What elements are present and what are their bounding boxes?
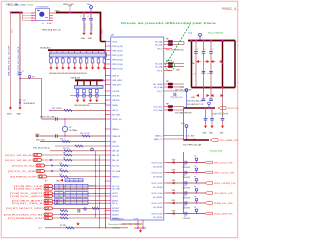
svg-text:PGOOD: PGOOD [112,146,120,148]
svg-text:[5V] INT_CHG_B: [5V] INT_CHG_B [12,203,44,205]
svg-text:I2C_SDA: I2C_SDA [112,170,120,173]
svg-text:USB_ID: USB_ID [112,75,119,77]
svg-text:!Imax=7500mA: !Imax=7500mA [208,31,223,34]
svg-text:U? BQ24392: U? BQ24392 [36,6,49,8]
svg-text:C?: C? [207,74,209,76]
svg-text:VDDIO_SD_CAP: VDDIO_SD_CAP [40,116,55,119]
svg-text:[3V] SOC_VHP_SEL_B1: [3V] SOC_VHP_SEL_B1 [5,160,32,162]
svg-text:GND: GND [203,133,208,135]
svg-text:SD_D3A: SD_D3A [155,65,163,68]
svg-text:GNDGNDGNDGNDGNDGNDGNDGNDGNDGN: GNDGNDGNDGNDGNDGNDGNDGNDGNDGN [49,73,87,75]
svg-text:! Imax=0.3mA: ! Imax=0.3mA [209,149,222,152]
svg-text:GND: GND [88,38,93,40]
svg-text:ALERT: ALERT [112,199,119,202]
svg-text:LDO_MODE: LDO_MODE [153,187,163,189]
svg-text:GND: GND [172,211,177,213]
svg-text:VDD_PHER_1V8: VDD_PHER_1V8 [219,140,238,142]
svg-text:VDDIO_SD: VDDIO_SD [112,119,122,121]
svg-text:SD_D0A: SD_D0A [155,40,163,43]
svg-text:Vreg: Vreg [180,87,184,89]
svg-text:GND: GND [81,38,86,40]
svg-text:GND: GND [191,63,196,65]
svg-text:VDDA_B5: VDDA_B5 [71,77,81,80]
svg-text:I2C2_SDA: I2C2_SDA [154,109,163,112]
svg-text:SUPRESSOR: SUPRESSOR [24,103,36,105]
svg-text:SD_CLK: SD_CLK [112,186,120,188]
svg-text:[1V8] SOC_GPIO2: [1V8] SOC_GPIO2 [10,196,43,198]
svg-text:[5V] HOLDING_PG_B1: [5V] HOLDING_PG_B1 [4,214,43,216]
svg-text:C?: C? [194,74,196,76]
svg-text:[5V] SYS_I2C_SCL: [5V] SYS_I2C_SCL [12,165,36,167]
svg-text:C?: C? [87,16,89,18]
svg-text:USB_VBUS_5V0_AC_CHG_DET: USB_VBUS_5V0_AC_CHG_DET [7,45,10,76]
svg-text:SW_1.1V75: SW_1.1V75 [80,133,90,135]
svg-text:VDD_MCU_SYS_B: VDD_MCU_SYS_B [33,147,50,149]
svg-text:2.2uF/10V: 2.2uF/10V [183,177,191,179]
svg-text:Vreg: Vreg [181,123,185,125]
svg-text:Vbus: Vbus [87,4,92,6]
svg-text:VOUT_LDO5: VOUT_LDO5 [151,203,162,205]
svg-text:[5V] SYS_I2C_SDA: [5V] SYS_I2C_SDA [8,170,36,173]
svg-text:0.1uF/25V: 0.1uF/25V [92,22,94,31]
svg-text:2.2K: 2.2K [59,174,63,176]
svg-text:VDD_PHER_1V8_CAP: VDD_PHER_1V8_CAP [183,144,202,147]
svg-text:XTALIN: XTALIN [112,128,119,131]
svg-text:bq: bq [37,10,39,12]
svg-text:SEL_B0: SEL_B0 [112,151,119,153]
svg-text:[3V] SOC_VHP_SEL_B0: [3V] SOC_VHP_SEL_B0 [5,155,32,157]
svg-text:TP28_GND_B05: TP28_GND_B05 [170,97,183,99]
svg-text:U?: U? [69,127,71,129]
svg-text:GND: GND [7,114,12,116]
svg-text:PWR_IN_B5: PWR_IN_B5 [112,68,122,70]
svg-text:PWR_IN_B1: PWR_IN_B1 [112,50,122,52]
svg-text:PS_I0: PS_I0 [157,48,162,50]
svg-text:VRTC_LDO2_1V8: VRTC_LDO2_1V8 [214,172,235,174]
svg-text:GND: GND [209,133,214,135]
svg-text:Imax=1100mA: Imax=1100mA [212,112,228,115]
svg-text:C?: C? [184,195,186,197]
svg-text:LDO_MODE: LDO_MODE [153,176,163,178]
svg-text:2.2uF/10V: 2.2uF/10V [183,198,191,200]
svg-text:2.2K: 2.2K [59,168,63,170]
svg-text:2.2uF/10V: 2.2uF/10V [183,188,191,190]
svg-text:FB?: FB? [166,104,169,106]
svg-text:0R: 0R [63,157,66,159]
svg-text:B?: B? [45,181,47,183]
svg-text:CLK32K: CLK32K [112,91,120,93]
svg-text:nn: nn [42,23,44,25]
svg-text:INT_B: INT_B [112,203,118,205]
svg-text:2.2K: 2.2K [59,163,63,165]
svg-text:LDO_MODE: LDO_MODE [153,207,163,209]
svg-text:VDDA_B15: VDDA_B15 [40,46,51,49]
svg-text:[5V] VBUS_ALERT: [5V] VBUS_ALERT [12,199,44,202]
svg-text:GND: GND [172,200,177,202]
svg-text:C?: C? [184,175,186,177]
svg-text:26.75MHz: 26.75MHz [69,130,77,132]
svg-text:C?: C? [184,165,186,167]
svg-text:C?: C? [184,216,186,218]
svg-text:GND: GND [172,180,177,182]
svg-text:SW_VDDIO: SW_VDDIO [52,108,63,110]
svg-text:GND: GND [191,97,196,99]
svg-text:C?: C? [184,185,186,187]
svg-text:VDD_SOC_0V8: VDD_SOC_0V8 [227,108,238,110]
svg-text:C?: C? [204,49,206,51]
svg-text:GND: GND [172,160,177,162]
svg-text:LDO_MODE: LDO_MODE [153,166,163,168]
svg-text:Route as pseudo differential p: Route as pseudo differential pair trace [121,22,217,25]
svg-text:SD_CMDA: SD_CMDA [153,83,163,86]
svg-text:I2C2_SCL: I2C2_SCL [154,106,163,108]
svg-text:5V0: 5V0 [12,30,14,33]
svg-text:VOUT_LDO2: VOUT_LDO2 [151,172,162,174]
svg-text:VSYS: VSYS [112,41,118,43]
svg-text:PWR_IN_B4: PWR_IN_B4 [112,64,122,66]
svg-text:C?: C? [22,71,24,73]
svg-text:VDD_MSCL_1V8: VDD_MSCL_1V8 [214,193,233,195]
svg-text:PS_I1: PS_I1 [157,70,162,72]
svg-text:VOUT_LDO6: VOUT_LDO6 [151,213,162,215]
svg-text:[5V] PWRGRD_PG4: [5V] PWRGRD_PG4 [8,218,44,220]
svg-text:VSYS_SYS_4V2_CHG_OUT_B: VSYS_SYS_4V2_CHG_OUT_B [18,46,20,76]
svg-text:SD_VSEL: SD_VSEL [112,114,120,116]
svg-text:SYS_EN: SYS_EN [112,95,120,97]
svg-text:PS_I2: PS_I2 [157,91,162,93]
svg-text:[1V8] SD_CMD: [1V8] SD_CMD [14,189,44,191]
svg-text:2.2uF/10V: 2.2uF/10V [183,208,191,210]
svg-text:XTALOUT: XTALOUT [112,135,121,138]
svg-text:GND: GND [172,190,177,192]
svg-text:PWRON: PWRON [112,100,120,102]
svg-text:SD_CLKA: SD_CLKA [154,86,163,89]
svg-text:SD_D2A: SD_D2A [155,62,163,65]
svg-text:PWR_IN_B2: PWR_IN_B2 [112,55,122,57]
svg-text:GPIO2: GPIO2 [112,196,118,198]
svg-text:D?: D? [24,100,26,102]
svg-text:Thermal pad GND: Thermal pad GND [108,224,123,226]
svg-text:VDD1_LPDDR_1V8: VDD1_LPDDR_1V8 [214,183,237,185]
svg-text:VHT_LDO1_1V8: VHT_LDO1_1V8 [214,162,234,164]
svg-text:see note A: see note A [23,3,33,6]
svg-text:[5V] BT_DETECT_GPIO: [5V] BT_DETECT_GPIO [6,208,43,210]
svg-text:[1V8] SD_CLK: [1V8] SD_CLK [14,186,44,188]
svg-text:VDD_SD2: VDD_SD2 [36,139,45,141]
svg-text:2.2uF/10V: 2.2uF/10V [183,167,191,169]
svg-text:SW_1%: SW_1% [63,148,70,150]
svg-text:0R: 0R [63,152,66,154]
svg-text:GND: GND [16,114,21,116]
svg-text:0.1uF: 0.1uF [47,23,52,25]
svg-text:VOUT_LDO3: VOUT_LDO3 [151,183,162,185]
svg-text:SW2: SW2 [112,141,116,143]
svg-text:PWR_IN_B0: PWR_IN_B0 [112,46,122,48]
svg-text:FB?: FB? [166,39,169,41]
svg-text:VSYS: VSYS [102,28,104,34]
svg-text:0.1uF/25V: 0.1uF/25V [85,22,87,31]
svg-text:Vreg: Vreg [188,32,192,35]
svg-text:SEL_B2: SEL_B2 [112,160,119,162]
svg-text:VBUS_ACA_DET_LN: VBUS_ACA_DET_LN [42,29,61,32]
svg-text:USB_VBUS: USB_VBUS [112,80,123,82]
svg-text:TP6: TP6 [32,77,35,79]
svg-text:C?: C? [212,49,214,51]
svg-text:2.2uF/10V: 2.2uF/10V [183,218,191,220]
svg-text:C?: C? [184,205,186,207]
svg-text:SD_PU: SD_PU [89,185,95,187]
svg-text:GNDA: GNDA [112,104,118,107]
svg-text:GND: GND [220,133,225,135]
svg-text:PROC_A: PROC_A [222,7,237,11]
svg-text:R? 33R: R? 33R [60,225,67,227]
svg-text:SD_CMD: SD_CMD [112,189,120,191]
svg-text:C?: C? [197,49,199,51]
svg-text:SD_D1A: SD_D1A [155,43,163,46]
svg-text:VDDA_DLL_0V8: VDDA_DLL_0V8 [214,202,234,205]
svg-text:GND: GND [176,69,181,71]
svg-text:SW_IO: SW_IO [112,110,119,112]
svg-text:SW_2: SW_2 [60,139,65,141]
svg-text:VDD_GPU_PWR_EN: VDD_GPU_PWR_EN [175,90,192,92]
svg-text:SEL_B1: SEL_B1 [112,155,119,157]
svg-text:PWR_IN_B3: PWR_IN_B3 [112,59,122,61]
svg-text:I2C_SCL: I2C_SCL [112,165,119,167]
svg-text:PWRGD: PWRGD [112,176,120,178]
svg-text:VBAT_CO: VBAT_CO [154,138,163,141]
svg-text:VOUT_LDO1: VOUT_LDO1 [151,162,162,164]
svg-text:MODE0: MODE0 [112,211,119,213]
svg-text:LDO_MODE: LDO_MODE [153,197,163,199]
svg-text:MODE1: MODE1 [112,214,119,216]
svg-text:FB?: FB? [166,81,169,83]
svg-text:GNDGNDGNDGND: GNDGNDGNDGND [74,105,90,107]
svg-text:LDO_MODE: LDO_MODE [153,217,163,219]
svg-text:GND: GND [56,180,61,182]
svg-text:CLK: CLK [38,228,43,230]
svg-text:C?: C? [80,16,82,18]
svg-text:PWRGNDDIG: PWRGNDDIG [112,218,124,220]
svg-text:VDDQ_DDR_0V6: VDDQ_DDR_0V6 [214,213,233,215]
svg-text:[5V] PWRGD_PORT: [5V] PWRGD_PORT [10,176,38,178]
svg-text:USB_DET: USB_DET [112,84,121,86]
svg-text:VBAT_LI: VBAT_LI [155,134,163,137]
svg-text:VDD_BAT: VDD_BAT [186,134,196,137]
svg-text:VDD_SOC_B05_1V1: VDD_SOC_B05_1V1 [187,100,203,102]
svg-text:GND: GND [172,170,177,172]
svg-text:VDD_ARM_SOC_PG: VDD_ARM_SOC_PG [187,103,204,106]
svg-text:VOUT_LDO4: VOUT_LDO4 [151,193,162,195]
